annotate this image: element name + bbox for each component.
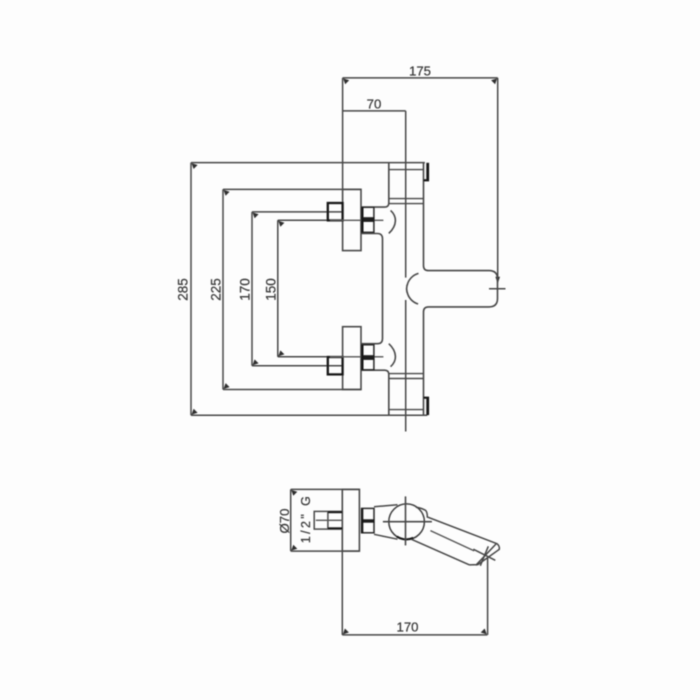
dimension 285 bracket [191,163,427,416]
sphere horizontal centreline [383,521,432,523]
dimension D70 bracket [291,489,360,551]
top inlet centreline [330,219,383,221]
dimension 70 line [343,110,406,112]
spout tip face [476,543,497,565]
bottom escutcheon plate [343,327,361,390]
svg-text:170: 170 [396,619,418,634]
top cap joint lines [389,170,424,204]
bottom clamp bracket (heavy) [424,397,429,415]
spout bottom edge [412,539,470,565]
top escutcheon plate [343,189,361,250]
faucet body outline (front view) [361,163,429,416]
svg-text:170: 170 [238,278,253,301]
valve seat arc lower segment [407,292,418,304]
body left edge upper segment with corner into top inlet [361,163,389,208]
dimension 150 bracket [278,220,330,356]
sphere vertical centreline [405,496,407,545]
spout tip cross tick [480,546,488,566]
dimension 170 corner ticks [253,212,259,365]
top flex leader arc [389,210,396,233]
dimension 175 right extension line [497,78,499,282]
bottom cap joint lines [389,374,424,410]
bottom hex connector [361,345,374,370]
dimension 225 bracket [223,189,361,389]
dimension 175 arrows [343,78,497,84]
valve seat arc middle sliver [406,285,408,292]
bottom supply nut (heavy) [328,357,343,374]
bottom flex leader arc [389,344,396,367]
svg-text:225: 225 [209,278,224,301]
body right edge upper segment with corner into spout top [424,163,429,271]
body taper top line [374,505,398,507]
dimension 170 arrows [343,629,487,635]
bottom inlet lower contour into body left lower edge [361,370,389,415]
top hex connector [361,207,374,232]
svg-text:150: 150 [264,278,279,301]
dimension 225 corner ticks [224,190,230,389]
hex nut (side view) [361,508,374,532]
dimension 175 left extension line [342,78,344,190]
dimension 150 corner ticks [278,221,284,356]
wall plate (side view) [342,489,359,551]
dimension 170 right extension line [487,558,489,635]
threaded nipple [314,511,342,529]
spout tip centre tick [489,288,506,290]
top inlet lower contour into recessed edge [361,234,383,344]
body taper bottom line [374,534,398,539]
svg-text:175: 175 [409,64,431,79]
top supply nut (heavy) [328,203,343,220]
bottom inlet centreline [330,356,383,358]
body right edge lower segment with corner from spout bottom [424,307,429,415]
dimension D70 corner ticks [291,490,297,551]
ball joint sphere [389,504,425,540]
spout tip axis centreline [473,549,495,560]
top clamp bracket (heavy) [424,163,429,181]
spout outline (front view) [429,271,498,307]
spout inner bore line [430,531,474,551]
dimension 170 bracket [252,212,343,366]
dimension 175 arrow at spout tip [495,277,500,284]
valve seat arc upper segment [407,273,418,285]
spout collar and top edge [416,507,497,543]
spout tip aerator ring [470,543,500,565]
dimension 170 line [342,634,487,636]
svg-text:285: 285 [176,278,191,301]
dimension 285 corner ticks [192,163,198,415]
svg-text:1/2" G: 1/2" G [299,494,313,543]
sphere bottom heavy arc [397,537,414,540]
dimension 70 extension line (centre of body) [405,111,407,432]
dimension 170 left extension line [341,551,343,635]
svg-text:70: 70 [367,96,382,111]
dimension 175 line [343,77,498,79]
svg-text:Ø70: Ø70 [277,509,292,534]
